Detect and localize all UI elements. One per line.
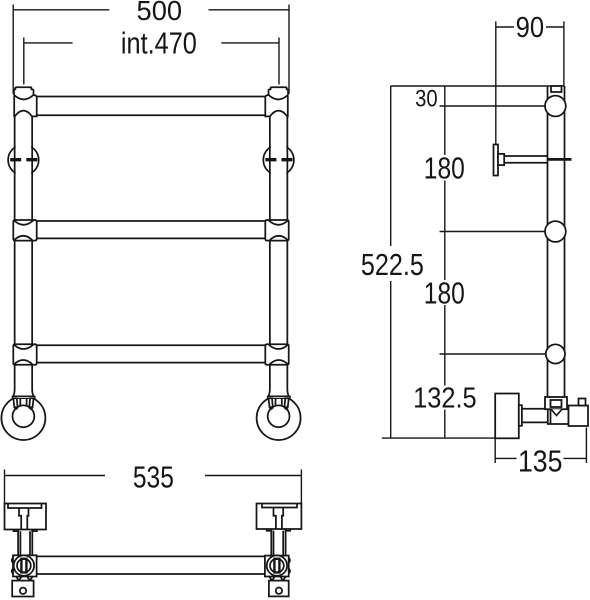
dimension 522.5 vertical line [390,86,392,438]
plan view: right block [265,555,290,576]
front view: top right joint [265,87,288,116]
tick at second circle [440,231,547,233]
side view: nut on post [545,397,567,416]
front view: left post [14,116,16,220]
front view: left foot [1,389,45,440]
front view: middle left joint [13,220,36,241]
front view: top bar [37,96,266,98]
front view: second bar [37,220,265,222]
front view: right wall bracket circle [263,145,294,176]
svg-text:30: 30 [415,86,438,113]
front view: right post [269,116,271,220]
svg-text:180: 180 [424,277,465,311]
dimension int.470 [24,38,279,85]
front view: middle right joint [265,220,288,241]
svg-text:522.5: 522.5 [361,248,424,282]
front view: lower left joint [13,344,36,365]
front view: lower right joint [265,344,288,365]
front view: left wall bracket circle [8,145,39,176]
side view: valve flange [519,405,522,426]
plan view: left teeth [16,577,32,581]
dimension 535 [5,470,302,504]
tick at first circle [440,105,547,107]
svg-text:135: 135 [518,444,563,479]
side view: valve knob [495,394,519,439]
dimension 135 [495,428,586,464]
left bracket screw dashes [10,158,37,161]
front view: top left joint [14,87,37,116]
plan view: left valve knob [5,504,47,530]
tick at third circle [440,353,547,355]
svg-text:500: 500 [137,0,183,26]
dimension 90 [496,21,564,144]
svg-text:535: 535 [133,461,174,495]
svg-text:90: 90 [516,12,545,44]
front view: right foot [257,389,301,440]
svg-text:180: 180 [424,152,465,186]
side view: dimension tick column [440,86,547,438]
plan view: left wall plate [12,581,33,597]
side view: post [547,86,549,397]
side view: wall connector block [569,406,589,427]
side view: under-nut body [548,409,569,424]
dimension 500 [13,5,289,95]
svg-text:132.5: 132.5 [413,383,477,415]
side view: bar end circle 1 [545,96,566,117]
svg-text:int.470: int.470 [121,27,197,61]
right bracket screw dashes [265,158,292,161]
plan view: main bar [37,555,265,557]
side view: bracket screw [548,158,572,161]
side view: top reference line [391,85,565,87]
plan view: right wall plate [269,581,289,597]
side view: connector top square [579,399,586,406]
plan view: right pipe [267,529,291,556]
side view: bottom reference line [382,437,498,439]
plan view: right valve knob [257,504,302,530]
side view: bar end circle 2 [545,221,566,242]
side view: wall bracket plate [494,145,548,176]
side view: bar end circle 3 [546,344,565,363]
side view: valve pipe [522,409,547,423]
side view: top cap notch [551,86,562,92]
plan view: left block [12,555,37,576]
front view: third bar [37,344,265,346]
plan view: left pipe [14,530,37,556]
plan view: right teeth [269,577,285,581]
